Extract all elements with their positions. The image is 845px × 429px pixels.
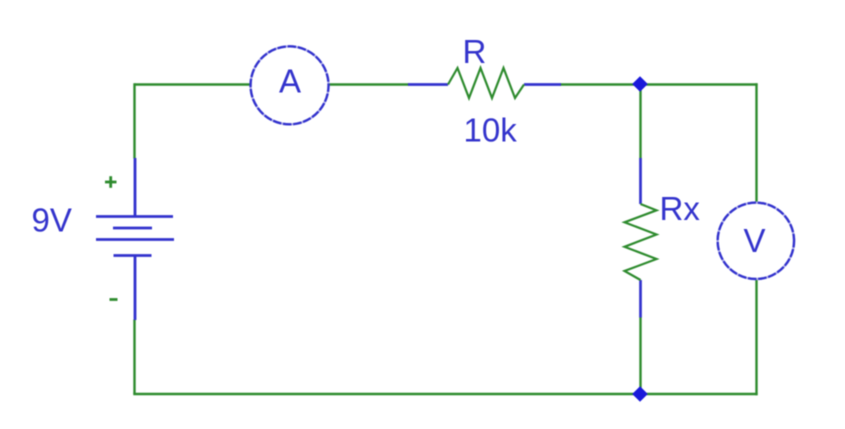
svg-text:A: A	[279, 63, 301, 100]
resistor Rx leads (blue)	[639, 158, 642, 204]
wire: right vertical upper (corner to voltmeter)	[755, 83, 757, 202]
node B junction (bottom)	[632, 386, 648, 402]
wire: middle branch lower (Rx to bottom node)	[639, 317, 641, 394]
resistor R zigzag	[448, 68, 524, 98]
wire: top-left segment from corner to ammeter	[135, 83, 251, 85]
svg-text:Rx: Rx	[660, 190, 701, 227]
wire: bottom horizontal	[133, 393, 757, 395]
voltmeter U2 circle	[718, 203, 794, 279]
wire: left vertical upper (corner to battery +)	[133, 83, 135, 158]
wire: middle branch upper (node to Rx)	[639, 85, 641, 159]
wire: resistor R right lead to top-right corner through node	[560, 83, 758, 85]
battery + polarity mark	[105, 176, 117, 188]
wire: right vertical lower (voltmeter to bottom corner)	[755, 276, 757, 395]
resistor Rx zigzag	[625, 204, 657, 280]
svg-text:R: R	[463, 33, 487, 70]
svg-text:10k: 10k	[464, 112, 518, 149]
battery - polarity mark	[110, 298, 118, 301]
resistor R leads (blue)	[408, 83, 448, 86]
wire: left vertical lower (battery - to bottom corner)	[133, 320, 135, 395]
battery V1 9V	[96, 158, 174, 320]
ammeter U1 circle	[251, 46, 329, 124]
wire: ammeter to resistor R left lead	[329, 83, 409, 85]
node A junction (top)	[632, 76, 648, 92]
svg-text:V: V	[743, 222, 765, 259]
svg-text:9V: 9V	[32, 202, 72, 239]
